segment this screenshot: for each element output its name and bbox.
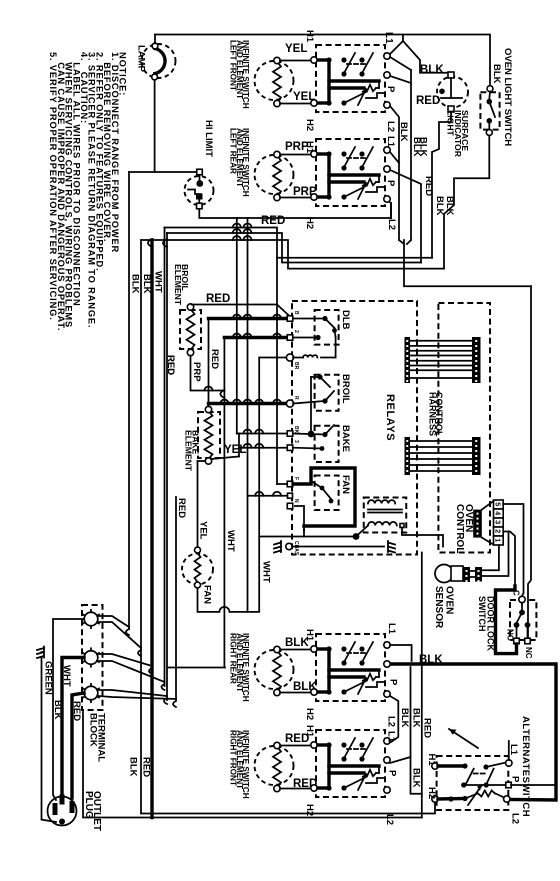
switch left front internal contacts [318,53,379,103]
wire relay terminal 3 feed [259,357,288,359]
alt switch P terminal [506,782,512,788]
riser RED bake top to relay terminal 1 [208,319,210,407]
switch right front coil [364,770,376,776]
oven light switch terminals [487,86,493,92]
relay box dashed outline [292,301,417,555]
svg-text:H2: H2 [304,708,315,720]
wire LF L1 to bus [390,35,403,55]
wire T3 RED to outlet [72,693,84,798]
bake element coil [205,411,213,459]
svg-text:FAN: FAN [340,475,351,494]
svg-text:3: 3 [494,520,501,524]
wire bus y286 [404,240,531,286]
element left rear terminals [274,151,280,157]
wire T1 BLK to outlet [53,619,84,800]
infinite switch left rear dashed box [316,139,385,206]
riser WHT x259 fan [258,358,260,537]
svg-text:L2: L2 [510,813,521,824]
switch right rear internal contacts [318,642,379,692]
wire lamp bottom down [154,80,156,172]
oven control pin header [473,510,482,538]
wire pin5 to door lock C [503,504,523,596]
oven control connector numbered [494,500,504,545]
svg-text:CHAS: CHAS [293,541,299,556]
svg-text:L2: L2 [386,716,397,727]
wire BLK down right side [411,667,422,794]
alt switch L1 terminal [506,760,512,766]
wire RR L1 to BLK line [390,645,412,661]
wire junction horizontal at hi-limit [129,171,199,173]
wire relay terminal 1 feed [209,317,289,320]
svg-text:NO: NO [506,629,515,641]
surface light terminals [448,72,454,78]
oven sensor probe [435,565,453,583]
element right rear heater coil [273,651,281,692]
green wire to outlet [42,657,57,822]
wire surface light bottom RED [432,112,451,258]
alternate switch dashed box [437,756,509,810]
door lock C terminal [519,596,525,602]
switch right rear terminal L2 [384,691,390,697]
switch left rear coil [364,179,376,185]
DLB relay coil [293,357,303,359]
DLB contacts [293,318,325,320]
terminal block lug 1 [84,612,98,626]
element left front lead wires [280,60,317,62]
svg-text:RED: RED [209,349,220,369]
terminal fan wires T2 [98,654,152,666]
svg-text:H2: H2 [426,787,437,799]
wire transformer secondary out [402,528,443,547]
svg-text:YEL: YEL [285,43,307,55]
switch left front terminal L2 [384,102,390,108]
wire bus y227.5 [165,228,433,258]
crossover humps on bus wires [233,224,241,228]
oven sensor connector blocks [463,567,470,582]
wire LF P down [390,76,411,83]
FAN contacts [320,486,325,491]
svg-text:H2: H2 [304,804,315,816]
svg-text:H1: H1 [304,141,315,154]
riser RED x236.8 to relay [236,218,238,434]
BROIL contacts [311,376,320,378]
svg-text:RED: RED [141,757,152,777]
left bus verticals [140,240,142,814]
switch right front internal contacts [318,738,379,788]
vertical x531 to door lock NC [528,286,531,637]
alt switch resistor [478,791,495,797]
svg-text:RED: RED [165,355,176,375]
svg-text:B: B [293,311,299,315]
svg-text:RED: RED [261,215,285,227]
svg-text:BROIL: BROIL [340,374,351,404]
wire pin1 to sensor [482,545,499,570]
svg-text:WHT: WHT [225,530,236,552]
svg-text:FAN: FAN [202,585,213,604]
svg-text:RED: RED [423,176,434,196]
fan motor coil [195,553,201,582]
wire relay terminal F feed [277,483,288,485]
svg-text:RED: RED [71,701,82,721]
svg-text:CONTROLHARNESS: CONTROLHARNESS [427,392,444,437]
switch left front terminal P [384,72,390,78]
broil element coil [187,309,195,350]
chassis ground left [280,541,282,552]
transformer core [368,509,402,511]
svg-text:N: N [293,499,299,503]
wire surface light BLK tap [403,41,448,73]
wire broil bottom down PRP [191,356,225,391]
door lock NC terminal [525,638,531,644]
svg-text:BLK: BLK [411,768,422,788]
element left rear heater coil [273,156,281,197]
switch right front terminal H1 [311,742,317,748]
bake element dashed box [198,412,220,458]
svg-text:YEL: YEL [198,521,209,540]
transformer dashed box [364,498,407,533]
bottom bus wire lower [83,712,422,818]
fan terminals [195,547,201,553]
svg-text:P: P [385,86,396,93]
harness top wires [411,340,473,342]
harness connector bottom right bar [472,437,481,475]
riser F x277 [276,258,278,484]
element right rear dashed circle [255,650,294,689]
broil element terminals [187,304,193,310]
switch left rear terminal P [384,166,390,172]
element left rear lead wires [280,154,317,156]
oven lamp symbol [142,44,176,78]
BAKE contacts [293,434,325,435]
switch left front terminal H2 [311,100,317,106]
switch left front cycling contact [318,89,384,106]
switch right front terminal H2 [311,785,317,791]
element right front terminals [274,742,280,748]
L1 bus wire top [155,35,490,85]
harness bottom wires [411,440,473,442]
wire BLK diag to RF P [390,757,411,763]
element left front dashed circle [255,61,294,100]
hi limit thermostat [185,176,214,205]
riser x247.5 to fan junction [247,218,249,612]
element right front dashed circle [255,746,294,785]
wire bus y240 [142,240,444,269]
transformer primary coil [368,500,395,503]
switch right front cycling contact [318,774,384,791]
terminal block lug 3 [84,686,98,700]
svg-text:OVEN LIGHT SWITCH: OVEN LIGHT SWITCH [502,48,513,146]
wire relay terminal 5 feed [237,433,288,435]
wire LR P to vertical x421 [390,170,421,263]
bottom bus wire to alt switch H2 [141,802,435,814]
switch left front coil [364,85,376,91]
svg-text:L1: L1 [383,32,394,44]
alt switch H1 terminal [432,763,438,769]
jog verticals x399 x411 at y240 [399,240,404,244]
alt switch L1 wire up [508,741,510,760]
alt switch contacts [438,764,465,767]
svg-text:H1: H1 [426,754,437,767]
svg-text:L2: L2 [386,219,397,230]
svg-text:R: R [293,396,299,400]
svg-text:F: F [293,477,299,480]
svg-text:L1: L1 [385,136,396,148]
svg-text:BLK: BLK [491,64,502,84]
oven light switch contacts [487,99,493,105]
annotation arrow [449,729,478,748]
junction dot bake feed [310,377,312,434]
switch left rear terminal L1 [384,147,390,153]
svg-text:5: 5 [494,502,501,506]
svg-text:4: 4 [494,511,501,515]
element right rear terminals [274,646,280,652]
harness connector top left bar [405,337,411,383]
wire fan bottom loop [198,588,219,612]
svg-text:P: P [510,776,521,783]
wire lamp top to L1 bus [154,35,156,44]
element right front heater coil [273,747,281,788]
svg-text:LAMP: LAMP [136,45,147,73]
svg-text:BK: BK [293,426,299,434]
infinite switch right front dashed box [316,730,385,797]
svg-text:P: P [388,679,399,686]
alt switch P wire [511,784,556,786]
switch left rear terminal H2 [311,194,317,200]
svg-text:P: P [387,770,398,777]
svg-text:BLK: BLK [418,137,429,157]
wire LF L1 to BLK vertical [390,57,411,70]
element left front heater coil [273,62,281,103]
terminal block dashed box [82,605,103,710]
terminal fan wires T3 [98,690,167,696]
door lock switch dashed box [510,600,536,640]
fan relay thick wire loop [293,468,355,526]
element right rear lead wires [280,649,317,651]
svg-text:BLK: BLK [128,757,139,777]
svg-text:HI LIMIT: HI LIMIT [203,120,214,157]
vertical BLK x411 [410,70,412,240]
switch left rear terminal L2 [384,196,390,202]
svg-text:BLK: BLK [411,708,422,728]
svg-text:H1: H1 [304,629,315,642]
terminal block lug 2 [84,651,98,665]
chassis ground right [387,541,389,552]
svg-text:BLK: BLK [399,708,410,728]
relay BROIL contact box [315,375,339,411]
svg-text:BLK: BLK [130,274,141,294]
relay DLB contact box [315,310,339,345]
oven light switch dashed box [480,92,499,129]
svg-text:3: 3 [293,440,299,443]
wire RED vertical [421,553,423,818]
ground symbol at terminal block [43,647,45,658]
relay board terminals left edge [287,316,293,322]
switch right rear terminal P [384,661,390,667]
svg-text:RED: RED [176,498,187,518]
svg-text:2: 2 [293,330,299,333]
ground bond wire [292,546,384,548]
junction dot transformer [353,533,360,540]
alt switch arrow contact [468,785,482,805]
svg-text:H1: H1 [304,30,315,43]
switch left rear cycling contact [318,183,384,200]
surface light filament cross [450,78,452,98]
svg-text:P: P [385,180,396,187]
transformer secondary coil [368,522,397,526]
wire RR L2 down to RF L1 [390,696,398,742]
svg-text:1: 1 [494,538,501,542]
svg-text:NC: NC [524,647,533,659]
svg-text:WHT: WHT [261,561,272,583]
wire relay terminal 6 feed [239,447,288,449]
BLK wire from RR P to alternate switch L2 [390,664,556,800]
wire hi-limit to red bus [199,201,391,218]
svg-text:BLK: BLK [444,196,455,216]
switch right rear terminal H2 [311,689,317,695]
svg-text:BR: BR [293,362,299,370]
svg-text:WHT: WHT [153,271,164,293]
lamp terminals [152,43,158,49]
wire bake bottom YEL to relay [211,457,239,460]
alt switch H2 terminal [432,796,438,802]
switch right rear coil [364,674,376,680]
svg-text:ALTERNATESWITCH: ALTERNATESWITCH [520,716,531,817]
chevrons where verticals join [148,239,152,247]
wire oven light switch bottom [444,136,489,269]
relay BAKE contact box [315,426,339,462]
svg-text:GREEN: GREEN [43,661,54,695]
switch right rear terminal L1 [384,642,390,648]
svg-text:BLK: BLK [420,64,444,76]
switch right front terminal P [384,757,390,763]
svg-text:L2: L2 [385,121,396,132]
wire LR L2 joins red bus at 391 [390,203,392,218]
vertical WHT x224 to relay terminal 2 [223,338,225,668]
neutral return wire [169,667,226,669]
fan motor dashed circle [182,554,213,585]
wire T2 WHT to outlet [62,658,84,794]
svg-text:RED: RED [422,718,433,738]
svg-text:WHT: WHT [61,665,72,687]
switch left rear internal contacts [318,147,379,197]
door lock contacts [521,603,523,610]
element left front terminals [274,57,280,63]
connector flare lines [482,501,494,510]
infinite switch left front dashed box [316,45,385,112]
outlet plug prongs [60,795,65,805]
wire sensor to pin2 riser [482,532,509,577]
door lock thick wire loop [496,586,517,654]
outlet plug body [48,797,77,826]
element left rear dashed circle [255,155,294,194]
wire broil top to relay terminal 1 [192,305,291,317]
terminal fan wires T1 [98,616,129,627]
harness connector top right bar [472,337,481,383]
svg-text:BAKE: BAKE [340,425,351,452]
switch right rear cycling contact [318,678,384,695]
element right front lead wires [280,745,317,747]
svg-text:H1: H1 [304,725,315,738]
wire fan top up [197,461,199,547]
bake element terminals [205,406,211,412]
broil element dashed box [180,310,201,349]
surface indicator light dashed circle [437,77,468,108]
svg-text:L2: L2 [384,814,395,825]
svg-text:RED: RED [416,95,440,107]
wire LF L2 down [390,106,399,240]
svg-text:BLK: BLK [398,122,409,142]
wire pin2 to door lock NO [503,532,515,587]
relay FAN contact box [315,476,339,511]
svg-text:H2: H2 [304,119,315,131]
switch right front terminal L2 [384,787,390,793]
svg-text:L1: L1 [386,623,397,635]
control harness dashed box [438,303,490,553]
svg-text:DLB: DLB [340,310,351,330]
harness connector bottom left bar [405,437,411,475]
wire relay terminal 4 feed [209,402,289,405]
wire LR L1 join [390,152,399,163]
door lock NO terminal [514,638,520,644]
svg-text:RELAYS: RELAYS [384,394,396,441]
switch right rear terminal H1 [311,646,317,652]
wire bus y233 [167,233,421,263]
alt switch L2 terminal [504,796,510,802]
svg-text:2: 2 [494,529,501,533]
switch left front terminal H1 [311,57,317,63]
svg-text:BLK: BLK [141,274,152,294]
svg-text:RED: RED [206,293,230,305]
infinite switch right rear dashed box [316,634,385,701]
svg-text:H2: H2 [304,217,315,229]
switch right front terminal L1 [384,738,390,744]
left bus wire BLK x127 [128,172,130,629]
svg-text:PRP: PRP [191,362,202,382]
wire relay terminal 2 feed [224,336,288,339]
svg-text:BLK: BLK [434,196,445,216]
switch left front terminal L1 [384,53,390,59]
alt switch H2 row [438,797,465,801]
switch left rear terminal H1 [311,151,317,157]
label RED x176 wire [175,497,177,700]
wire relay terminal N feed [248,495,289,497]
neutral wire to transformer [295,506,304,537]
